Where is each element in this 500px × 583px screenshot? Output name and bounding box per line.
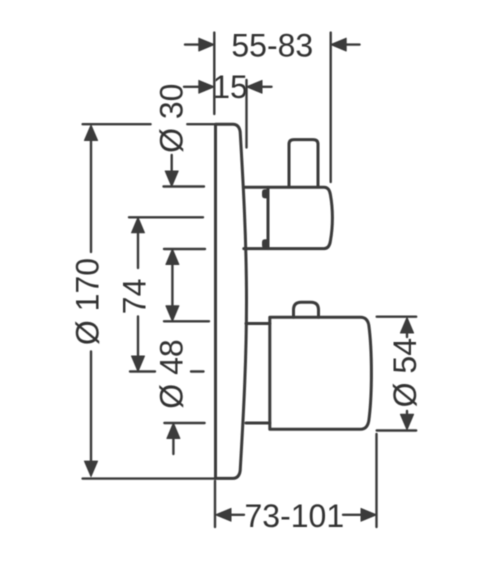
dim Ø30 top extension line	[164, 185, 205, 187]
dim Ø54 top extension line	[377, 316, 417, 318]
dim Ø170 bottom extension line	[83, 477, 215, 479]
svg-text:Ø 48: Ø 48	[153, 339, 189, 408]
dim Ø30 arrow from label	[170, 155, 172, 173]
lower handle body (thermostat grip)	[270, 317, 372, 429]
upper handle knob	[289, 140, 318, 187]
dim Ø54 bottom arrow	[406, 411, 408, 416]
upper handle body (shut-off, side view)	[244, 187, 333, 248]
dim Ø48 top extension line	[164, 320, 209, 322]
svg-text:15: 15	[212, 69, 248, 105]
dim 55-83 left arrow	[185, 43, 201, 45]
dim Ø48 bottom arrow	[172, 437, 174, 454]
dim Ø170 line with inward arrows	[90, 138, 92, 464]
svg-text:55-83: 55-83	[231, 28, 313, 64]
svg-text:74: 74	[117, 279, 153, 315]
dim 15 left arrow	[184, 86, 200, 88]
dim Ø48 bottom extension line	[164, 422, 204, 424]
dim 74 bottom extension line (broken by Ø48 label)	[130, 370, 204, 372]
dim 73-101 left extension line	[214, 481, 216, 527]
dim 73-101 right extension line	[375, 434, 377, 527]
upper handle joint nub bottom	[263, 241, 268, 248]
lower handle top tab	[294, 302, 319, 317]
svg-text:Ø 170: Ø 170	[70, 258, 106, 345]
dim Ø54 top arrow	[406, 331, 408, 337]
wall plate (escutcheon, side view)	[216, 124, 247, 478]
upper handle joint nub top	[263, 191, 268, 198]
dim Ø30 bottom extension line	[164, 248, 205, 250]
dim 73-101 line with outward arrows	[229, 514, 363, 516]
dim 15 right extension line	[245, 80, 247, 148]
dim 15 right arrow	[261, 86, 272, 88]
dim 55-83 left extension line	[213, 33, 215, 114]
svg-text:73-101: 73-101	[244, 498, 344, 534]
dim Ø54 bottom extension line	[377, 429, 417, 431]
lower handle sleeve bottom line	[246, 422, 270, 425]
dim 74 line with outward arrows	[137, 230, 139, 358]
dim 74 top extension line	[129, 216, 203, 218]
dim Ø170 top extension line (broken by Ø30 label)	[83, 123, 214, 125]
lower handle sleeve top line	[246, 322, 270, 325]
upper handle joint line	[267, 187, 270, 248]
svg-text:Ø 54: Ø 54	[387, 338, 423, 407]
dim 55-83 right arrow	[345, 43, 360, 45]
dim Ø30/Ø48 shared arrow segment	[171, 262, 173, 308]
dim 55-83 right extension line	[330, 33, 332, 182]
svg-text:Ø 30: Ø 30	[154, 84, 190, 153]
